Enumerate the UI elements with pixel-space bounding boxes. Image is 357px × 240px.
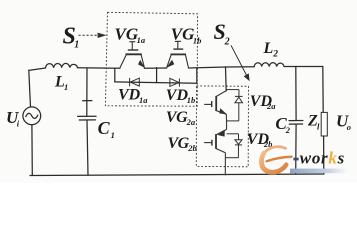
svg-text:C: C <box>98 118 111 138</box>
wire bottom rail <box>30 174 324 176</box>
wire diode rail <box>115 82 197 83</box>
node tick on C1 branch <box>83 100 92 102</box>
wire rail L1 to VG1a <box>78 67 121 70</box>
switch box S2 dashed <box>196 86 248 167</box>
wire right vertical lower <box>323 136 325 174</box>
load Zl rectangle <box>321 112 327 136</box>
svg-text:2b: 2b <box>187 143 197 153</box>
logo e crossbar <box>267 157 292 161</box>
wire rail S2 branch to L2 <box>226 66 255 68</box>
svg-text:works: works <box>300 148 345 167</box>
svg-text:VD: VD <box>166 87 189 104</box>
diode VD1a <box>130 78 140 86</box>
svg-text:1: 1 <box>64 82 68 92</box>
logo e group <box>260 147 292 173</box>
inductor L2 <box>254 63 284 67</box>
label S1 arrow <box>79 33 107 38</box>
capacitor C2 <box>289 120 303 122</box>
svg-text:VG: VG <box>166 109 188 126</box>
source Ui sine wave <box>26 113 38 118</box>
svg-text:VD: VD <box>118 87 141 104</box>
wire left vertical below source <box>31 125 33 176</box>
diode VD2b <box>225 134 242 158</box>
transistor VG1a <box>120 42 145 68</box>
wire rail between VG1a and VG1b <box>144 67 166 69</box>
wire S2 branch drop <box>225 67 228 91</box>
svg-text:2: 2 <box>285 125 291 135</box>
svg-text:1: 1 <box>111 130 115 140</box>
svg-text:L: L <box>263 40 274 57</box>
switch box S1 dashed <box>105 12 197 106</box>
logo hyphen <box>293 158 298 161</box>
wire S1 right drop <box>196 68 198 84</box>
logo e swoosh top arc <box>263 147 286 155</box>
svg-text:1: 1 <box>74 40 79 51</box>
wire S1 left drop <box>114 68 116 82</box>
source Ui circle <box>23 107 41 125</box>
wire rail L2 to right corner <box>284 66 323 68</box>
capacitor C1 <box>78 115 97 117</box>
wire right vertical upper <box>322 67 324 113</box>
label S2 arrow <box>231 45 250 81</box>
transistor VG1b <box>166 41 188 68</box>
svg-text:l: l <box>317 122 320 132</box>
svg-text:2a: 2a <box>266 101 276 111</box>
wire S1 mid drop <box>156 68 158 83</box>
wire C2 branch lower <box>295 124 297 173</box>
wire top rail left stub <box>29 68 46 70</box>
watermark logo e-works <box>260 147 346 174</box>
svg-text:VG: VG <box>115 24 139 43</box>
logo gradient bar <box>290 169 347 174</box>
svg-text:i: i <box>17 118 20 128</box>
svg-text:2: 2 <box>272 49 278 59</box>
svg-text:VG: VG <box>171 25 195 44</box>
wire left vertical above source <box>29 70 31 107</box>
wire C2 branch upper <box>295 67 297 120</box>
diode VD2a <box>226 90 242 121</box>
wire S2 bottom vertical <box>224 153 226 175</box>
transistor VG2b <box>204 129 226 152</box>
svg-text:1b: 1b <box>187 95 196 105</box>
transistor VG2a <box>204 90 227 114</box>
svg-text:1a: 1a <box>137 35 146 45</box>
svg-text:1a: 1a <box>139 95 148 105</box>
wire C1 branch lower <box>87 120 88 175</box>
svg-text:1b: 1b <box>193 35 202 45</box>
svg-text:o: o <box>347 122 351 132</box>
svg-text:2: 2 <box>224 37 230 48</box>
svg-text:2a: 2a <box>186 117 196 127</box>
wire S2 mid vertical <box>225 114 227 129</box>
wire rail VG1b to S2 branch <box>189 67 226 68</box>
inductor L1 <box>46 63 78 67</box>
diode VD1b <box>170 78 180 86</box>
logo e swoosh bottom arc <box>260 153 287 172</box>
svg-text:VG: VG <box>168 135 190 152</box>
wire C1 branch upper <box>86 68 88 116</box>
